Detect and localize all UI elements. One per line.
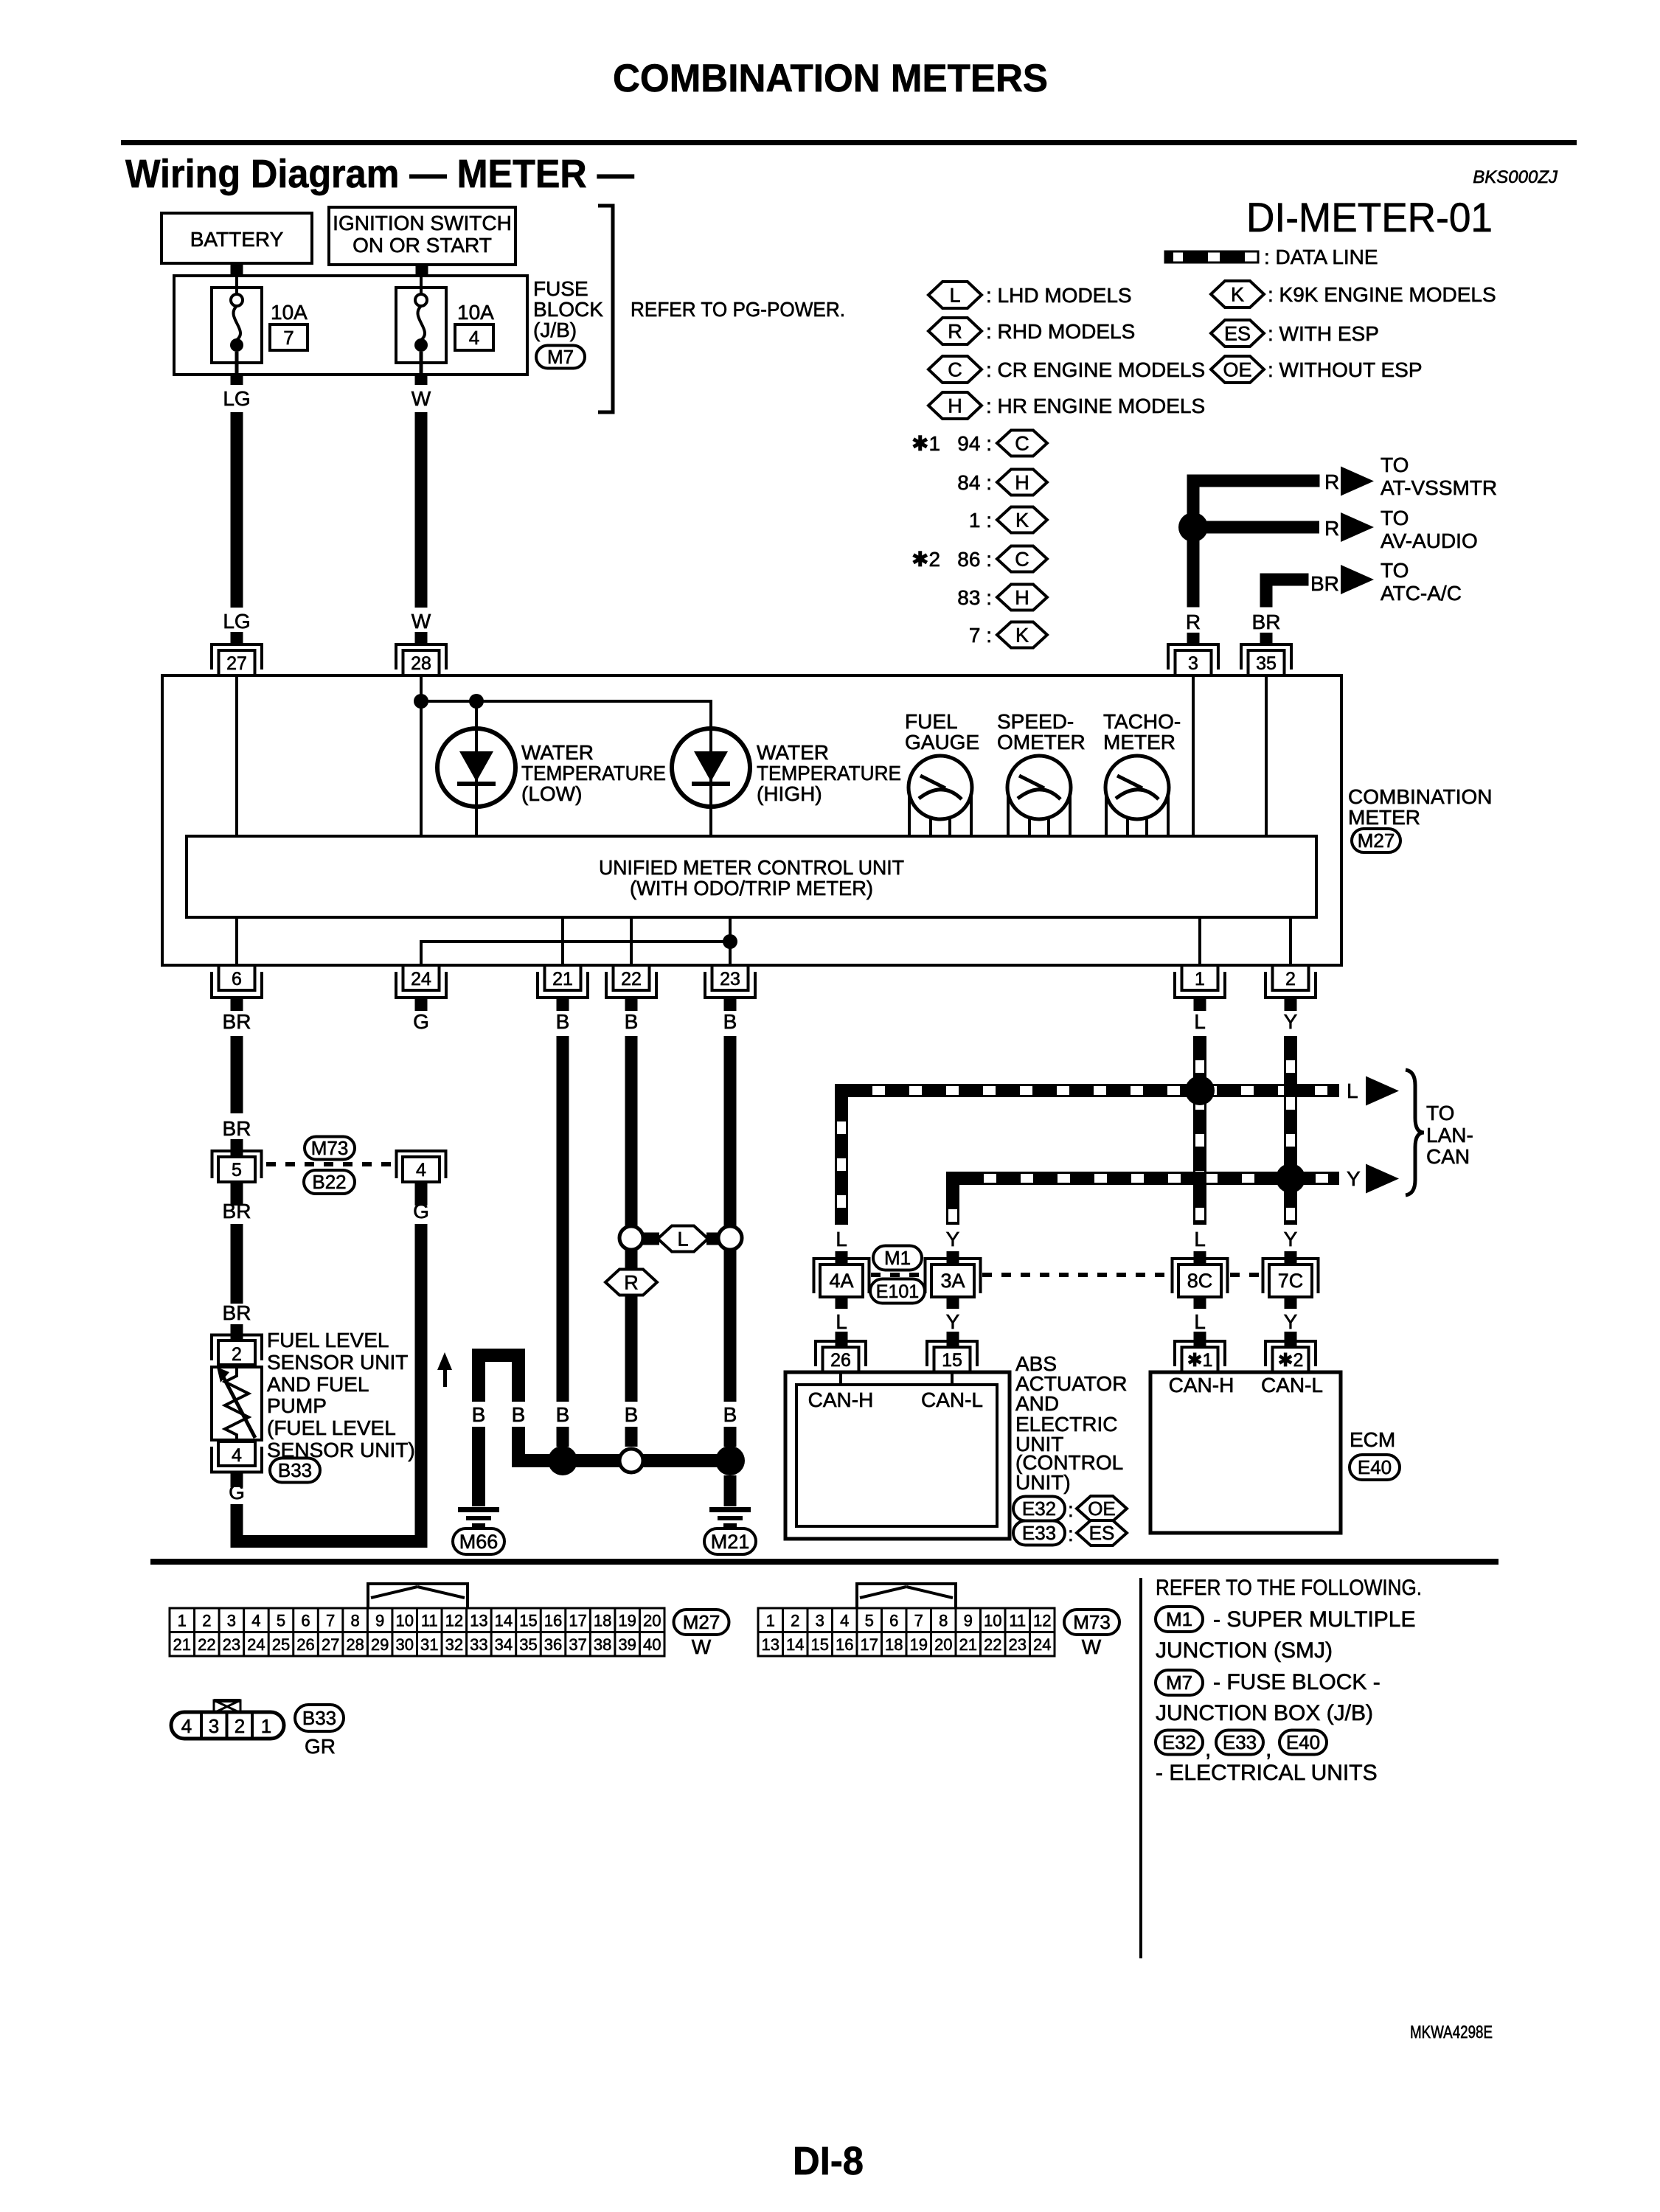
dashed connector link [1230,1273,1261,1277]
svg-text:LAN-: LAN- [1426,1124,1473,1147]
wire color L [1347,1079,1358,1102]
connector code M73 [1064,1610,1119,1635]
svg-text:8C: 8C [1187,1270,1213,1292]
svg-text:15: 15 [942,1350,962,1371]
svg-text:L: L [949,284,960,306]
svg-text:K: K [1015,624,1029,646]
wire color L [836,1310,847,1333]
svg-text:11: 11 [421,1612,438,1630]
wire color W [411,610,431,633]
svg-text:BR: BR [1252,611,1281,633]
wire stub [947,1296,959,1309]
wire color G [413,1010,429,1033]
wire branch to pin 24 [420,940,730,965]
legend hexagon ES [1211,320,1264,347]
legend HR ENGINE MODELS [986,394,1205,417]
wire G fuel sensor elbow [231,1504,428,1548]
wire stub [625,1250,638,1270]
connector pin 35 [1241,644,1291,675]
svg-text:BLOCK: BLOCK [533,298,603,321]
wire B to ground M66 [472,1427,485,1506]
wire stub [1285,1296,1297,1309]
wire color LG [223,610,250,633]
label ECM [1350,1428,1395,1451]
wire color L [1194,1010,1206,1033]
svg-text:COMBINATION: COMBINATION [1348,785,1492,808]
svg-text:31: 31 [420,1635,438,1654]
svg-text:E32: E32 [1162,1731,1196,1753]
connector color GR [305,1735,336,1758]
legend hexagon L [928,282,982,308]
legend LHD MODELS [986,284,1132,307]
pin 1 model hexagon K [969,507,1047,533]
svg-text:: CR ENGINE MODELS: : CR ENGINE MODELS [986,358,1205,381]
svg-text:4A: 4A [829,1270,853,1292]
svg-text:BR: BR [223,1301,251,1324]
fuse number 4 [455,324,493,350]
connector code B22 [304,1170,355,1194]
wire BR pin6 upper [231,1036,243,1113]
svg-text:AT-VSSMTR: AT-VSSMTR [1381,476,1497,499]
connector code M27 [674,1610,729,1635]
svg-text:21: 21 [173,1635,191,1654]
svg-text:FUEL LEVEL: FUEL LEVEL [267,1329,389,1352]
connector code M7 note [1156,1670,1381,1695]
wire B pin23 lower [724,1250,737,1402]
connector code B33 [295,1705,344,1731]
bracket refer to pg-power [598,206,613,412]
svg-text:13: 13 [762,1635,779,1654]
wire to water temp high [709,701,712,836]
svg-text:15: 15 [519,1612,537,1630]
svg-text:8: 8 [351,1612,360,1630]
svg-text:BR: BR [1310,572,1339,595]
svg-text:1: 1 [766,1612,775,1630]
label combination meter [1348,785,1492,829]
svg-text:9: 9 [375,1612,384,1630]
svg-text:TACHO-: TACHO- [1103,710,1181,733]
svg-text:- ELECTRICAL UNITS: - ELECTRICAL UNITS [1156,1761,1378,1785]
gauge speedometer [1007,756,1071,836]
wire stub to connector 3 [1187,633,1200,645]
svg-text:COMBINATION METERS: COMBINATION METERS [613,57,1048,100]
connector pin 2 [1265,965,1316,1011]
svg-text:B: B [625,1403,639,1426]
svg-text:L: L [1194,1228,1206,1251]
svg-text:20: 20 [643,1612,661,1630]
dashed connector link [871,1273,923,1277]
svg-text:19: 19 [910,1635,928,1654]
svg-text:E40: E40 [1358,1456,1392,1478]
svg-text:8: 8 [939,1612,948,1630]
svg-text:BATTERY: BATTERY [190,228,284,251]
svg-text:REFER TO PG-POWER.: REFER TO PG-POWER. [631,298,845,321]
svg-text:L: L [1194,1010,1206,1033]
fuse value 10A [271,301,308,324]
svg-text:28: 28 [346,1635,364,1654]
connector code E33 with esp [1013,1520,1127,1545]
svg-text:22: 22 [198,1635,215,1654]
wire color L [1194,1228,1206,1251]
junction dot L [1185,1076,1215,1105]
gauge fuel [909,756,972,836]
svg-text:M27: M27 [683,1611,720,1633]
svg-text:TO: TO [1381,559,1409,582]
svg-text:BR: BR [223,1117,251,1140]
svg-text:12: 12 [1033,1612,1051,1630]
junction circle on bus [619,1449,643,1472]
label TO AV-AUDIO [1381,507,1478,552]
svg-text:2: 2 [202,1612,211,1630]
wire BR to fuel sensor [231,1224,243,1304]
wire stub [231,1324,243,1340]
svg-text:25: 25 [272,1635,290,1654]
svg-text:5: 5 [277,1612,285,1630]
wire stub to connector 35 [1260,633,1273,645]
svg-text:19: 19 [618,1612,636,1630]
wire color Y [946,1228,960,1251]
svg-text:: WITHOUT ESP: : WITHOUT ESP [1268,358,1423,381]
junction dot R [1178,512,1208,542]
svg-text:WATER: WATER [521,741,594,764]
svg-text:3: 3 [227,1612,236,1630]
svg-text::: : [1068,1498,1074,1521]
svg-text:17: 17 [861,1635,878,1654]
svg-text:4: 4 [181,1715,192,1737]
svg-text:AND FUEL: AND FUEL [267,1373,369,1396]
wire color G [413,1200,429,1222]
note electrical units [1156,1761,1378,1785]
wire R to AT-VSSMTR [1187,475,1320,487]
wire battery to fuse block [231,263,243,276]
legend K9K ENGINE MODELS [1268,283,1496,306]
arrow to ATC-A/C [1341,565,1374,594]
svg-text:B: B [472,1403,486,1426]
svg-text:TO: TO [1381,453,1409,476]
svg-text::: : [1068,1523,1074,1545]
wire color W [411,387,431,410]
connector pin *1 [1175,1341,1225,1372]
wire stub [1285,1251,1297,1265]
svg-text:30: 30 [395,1635,413,1654]
note *1 pin list [911,432,940,455]
svg-text:L: L [836,1228,847,1251]
svg-text:C: C [1015,432,1029,454]
svg-text:CAN-H: CAN-H [1169,1374,1234,1397]
data line L vertical to 4A [836,1097,847,1225]
svg-text:94 :: 94 : [957,432,992,455]
wire stub [1194,1296,1206,1309]
brace to LAN-CAN [1406,1070,1424,1195]
pin 83 model hexagon H [957,585,1047,611]
data line legend text [1264,246,1378,268]
svg-text:10: 10 [395,1612,413,1630]
svg-text:,: , [1265,1737,1271,1761]
svg-text:35: 35 [1256,653,1277,674]
combination meter box [162,675,1341,965]
connector code E32 without esp [1013,1496,1127,1521]
wire color BR above connector 35 [1252,611,1281,633]
connector pin 7C [1263,1259,1319,1297]
svg-text:ATC-A/C: ATC-A/C [1381,582,1462,605]
svg-text:✱2: ✱2 [911,548,940,571]
svg-text:M7: M7 [1166,1672,1192,1694]
wire color B [723,1010,737,1033]
fuse value 10A [457,301,494,324]
connector pin 22 [606,965,656,1011]
wire color BR [223,1301,251,1324]
svg-text:29: 29 [371,1635,389,1654]
connector pin 6 [212,965,262,1011]
svg-text:23: 23 [223,1635,240,1654]
svg-text:W: W [1082,1635,1102,1658]
label fuel gauge [905,710,979,754]
note refer to the following [1156,1576,1422,1600]
svg-text:DI-8: DI-8 [793,2139,864,2183]
label water temperature low [521,741,666,805]
wire stub W below fuse block [415,375,428,385]
note junction box [1156,1701,1373,1725]
label CAN-H [1169,1374,1234,1397]
svg-text:R: R [624,1271,639,1293]
wire branch to water temp lamps [420,700,712,703]
svg-text:B: B [723,1010,737,1033]
svg-text:H: H [948,394,962,417]
arrow Y to LAN-CAN [1366,1164,1399,1194]
svg-text:16: 16 [544,1612,562,1630]
svg-text:Y: Y [946,1228,960,1251]
svg-text:2: 2 [232,1344,242,1365]
connector pin 28 [396,644,446,675]
svg-text:R: R [1324,470,1339,493]
arrow to AT-VSSMTR [1341,467,1374,496]
note REFER TO PG-POWER [631,298,845,321]
connector pin 15 [927,1341,977,1372]
wire stub [1194,1251,1206,1265]
svg-text:OE: OE [1088,1498,1116,1520]
svg-text:39: 39 [618,1635,636,1654]
svg-text:3: 3 [816,1612,824,1630]
svg-text:26: 26 [296,1635,314,1654]
wire color Y [1284,1010,1298,1033]
svg-text:10A: 10A [271,301,308,324]
legend WITHOUT ESP [1268,358,1423,381]
code BKS000ZJ [1473,167,1558,187]
label TO AT-VSSMTR [1381,453,1497,499]
wire stub [231,1139,243,1158]
svg-text:(FUEL LEVEL: (FUEL LEVEL [267,1416,396,1439]
svg-text:27: 27 [226,653,247,674]
connector code M1 note [1156,1607,1416,1632]
fuse block label [533,277,603,341]
battery label [190,228,284,251]
wire R vertical to page links [1187,475,1200,608]
svg-text:: RHD MODELS: : RHD MODELS [986,320,1135,343]
legend hexagon C [928,356,982,383]
svg-text:5: 5 [865,1612,874,1630]
junction dot [469,694,484,709]
wire color R [1324,517,1339,540]
svg-text:10A: 10A [457,301,494,324]
svg-text:B33: B33 [302,1707,336,1729]
svg-text:38: 38 [594,1635,611,1654]
svg-text:B: B [556,1403,570,1426]
svg-text:18: 18 [885,1635,903,1654]
svg-text:14: 14 [495,1612,513,1630]
wire stub to connector 28 [415,632,428,645]
svg-text:L: L [836,1310,847,1333]
gauge tachometer [1105,756,1169,836]
wire inside meter pin 27 [235,675,238,836]
arrow L to LAN-CAN [1366,1077,1399,1106]
wire inside meter pin 35 [1265,675,1268,836]
wire B pin21 lower [557,1036,569,1402]
connector M73/B22 pin 4 [397,1151,446,1182]
connector M1/E101 pin 4A [814,1259,869,1297]
svg-text:84 :: 84 : [957,471,992,494]
wire stub [415,1182,428,1206]
svg-text:7: 7 [283,327,294,349]
svg-text:(J/B): (J/B) [533,319,577,341]
connector pin 8C [1173,1259,1228,1297]
svg-text:W: W [411,610,431,633]
wire stub LG below fuse block [231,375,243,385]
connector code B33 [270,1458,320,1483]
svg-text:R: R [948,320,962,342]
svg-text:DI-METER-01: DI-METER-01 [1246,194,1493,240]
svg-text:LG: LG [223,610,250,633]
fuel level sensor resistor [212,1367,262,1440]
pin 84 model hexagon H [957,470,1047,495]
svg-text:36: 36 [544,1635,562,1654]
svg-text:12: 12 [445,1612,463,1630]
svg-text:6: 6 [889,1612,898,1630]
svg-text:33: 33 [470,1635,487,1654]
wire color G [229,1481,245,1503]
svg-text:L: L [1194,1310,1206,1333]
junction circle [619,1226,643,1250]
svg-text:7: 7 [326,1612,335,1630]
data line L from pin 1 [1195,1036,1206,1225]
connector code E101 [870,1279,925,1304]
svg-text:TO: TO [1426,1102,1454,1124]
svg-text:✱1: ✱1 [1187,1350,1213,1371]
wire inside meter pin 28 [420,675,423,836]
legend hexagon K [1211,281,1264,307]
svg-text:2: 2 [1285,969,1296,990]
diagram id DI-METER-01 [1246,194,1493,240]
svg-text:Y: Y [946,1310,960,1333]
svg-text:23: 23 [1009,1635,1027,1654]
svg-text:R: R [1186,611,1201,633]
wire to water temp low [475,701,478,836]
wire color B [625,1403,639,1426]
link to hexagon L [643,1233,719,1245]
connector pin 1 [1175,965,1225,1011]
svg-text:OMETER: OMETER [997,731,1086,754]
wire color Y [1347,1167,1361,1190]
dashed connector link [266,1162,397,1166]
wire inside meter pin 3 [1192,675,1195,836]
connector face M27 40-pin [170,1608,664,1656]
svg-text:(LOW): (LOW) [521,782,582,805]
svg-text:B: B [625,1010,639,1033]
unified meter control unit [187,836,1316,917]
svg-text:JUNCTION (SMJ): JUNCTION (SMJ) [1156,1638,1333,1663]
wire stub [1194,1332,1206,1347]
wire LG [231,412,243,608]
svg-text:ES: ES [1224,322,1251,344]
svg-text:: LHD MODELS: : LHD MODELS [986,284,1132,307]
wire B pin22 upper [625,1036,638,1226]
data line legend symbol [1165,251,1258,262]
wire color R above connector 3 [1186,611,1201,633]
wire R to AV-AUDIO [1193,521,1319,534]
fuel level sensor connector pin 2 [212,1335,262,1366]
svg-text:: HR ENGINE MODELS: : HR ENGINE MODELS [986,394,1205,417]
abs actuator and electric unit box [785,1372,1010,1539]
svg-text:CAN: CAN [1426,1145,1470,1168]
wire color BR [1310,572,1339,595]
svg-text:G: G [229,1481,245,1503]
svg-text:UNIFIED METER CONTROL UNIT: UNIFIED METER CONTROL UNIT [599,856,904,879]
label speedometer [997,710,1086,754]
wire color LG [223,387,250,410]
svg-text:27: 27 [322,1635,339,1654]
svg-text:G: G [413,1010,429,1033]
connector face B33 4-pin [171,1699,284,1739]
svg-text:AV-AUDIO: AV-AUDIO [1381,529,1478,552]
fuse block M7 box [174,276,527,375]
wire color B [556,1010,570,1033]
connector code M27 [1352,829,1400,852]
fuse number 7 [270,324,308,350]
svg-text:23: 23 [720,969,740,990]
connector pin 3 [1168,644,1218,675]
svg-text:M1: M1 [884,1247,911,1269]
svg-text:Y: Y [1284,1010,1298,1033]
svg-text:40: 40 [643,1635,661,1654]
svg-text:7 :: 7 : [969,624,992,647]
svg-text:CAN-L: CAN-L [1261,1374,1323,1397]
ignition switch [329,207,515,265]
svg-text:2: 2 [791,1612,799,1630]
wire stub [231,1182,243,1206]
svg-text:IGNITION SWITCH: IGNITION SWITCH [333,212,512,234]
label fuel level sensor unit [267,1329,415,1461]
battery [162,213,312,263]
wire umcu to pin 22 [630,917,633,965]
svg-text:TO: TO [1381,507,1409,529]
svg-text:✱1: ✱1 [911,432,940,455]
connector face M73 24-pin [758,1608,1055,1656]
svg-text:(WITH ODO/TRIP METER): (WITH ODO/TRIP METER) [630,877,873,900]
wire stub [625,1427,638,1447]
svg-text:4: 4 [469,327,479,349]
svg-text:W: W [411,387,431,410]
wire B branch right leg [512,1362,525,1402]
wire W [415,412,428,608]
svg-text:UNIT): UNIT) [1015,1471,1071,1494]
svg-text:Y: Y [1284,1310,1298,1333]
ignition switch label [333,212,512,257]
svg-text:E32: E32 [1022,1498,1056,1520]
wire umcu to pin 2 [1289,917,1292,965]
svg-text:- FUSE BLOCK -: - FUSE BLOCK - [1213,1670,1381,1694]
svg-text:E33: E33 [1022,1522,1056,1544]
wire B branch to ground M66 [472,1349,525,1402]
svg-text:L: L [677,1228,688,1250]
